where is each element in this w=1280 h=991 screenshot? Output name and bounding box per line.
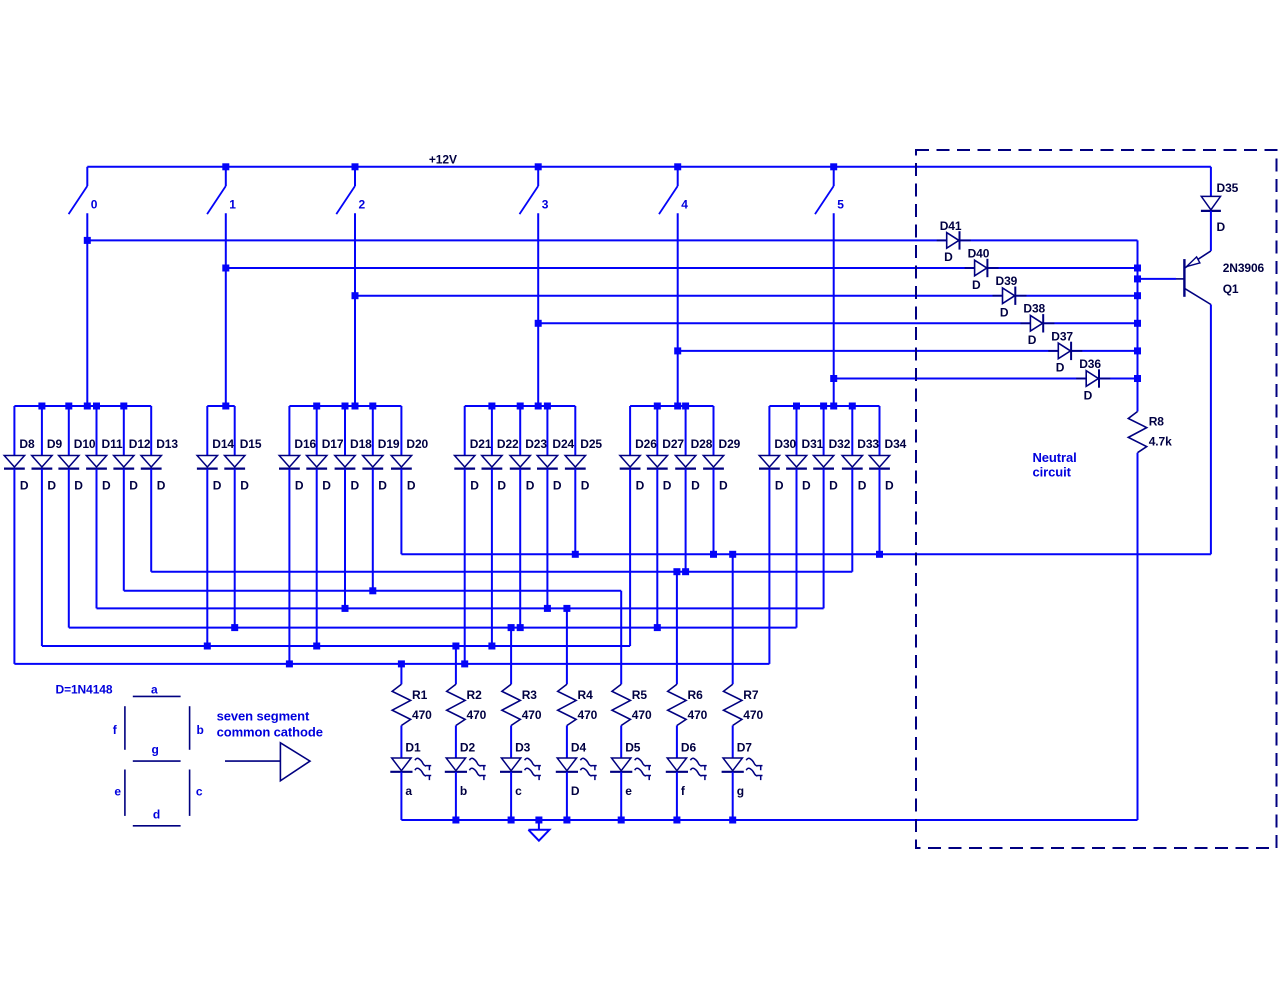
svg-text:D: D (691, 479, 700, 493)
svg-text:D=1N4148: D=1N4148 (56, 683, 113, 697)
svg-text:+12V: +12V (429, 153, 457, 167)
svg-text:D: D (351, 479, 360, 493)
svg-text:D: D (129, 479, 138, 493)
svg-text:470: 470 (522, 708, 542, 722)
svg-text:D27: D27 (662, 437, 684, 451)
svg-text:g: g (737, 784, 744, 798)
svg-text:Neutral: Neutral (1033, 450, 1077, 465)
svg-text:D35: D35 (1217, 181, 1239, 195)
svg-text:D12: D12 (129, 437, 151, 451)
svg-text:D1: D1 (405, 741, 421, 755)
svg-text:c: c (515, 784, 522, 798)
svg-text:D30: D30 (774, 437, 796, 451)
svg-text:D: D (553, 479, 562, 493)
svg-text:4.7k: 4.7k (1149, 435, 1172, 449)
svg-text:D32: D32 (829, 437, 851, 451)
svg-text:D: D (571, 784, 580, 798)
svg-text:470: 470 (688, 708, 708, 722)
svg-text:D: D (295, 479, 304, 493)
svg-text:D2: D2 (460, 741, 476, 755)
svg-text:a: a (405, 784, 412, 798)
svg-text:D33: D33 (857, 437, 879, 451)
svg-text:D: D (378, 479, 387, 493)
svg-text:3: 3 (542, 198, 549, 212)
svg-text:D: D (829, 479, 838, 493)
svg-text:R3: R3 (522, 688, 538, 702)
svg-text:R5: R5 (632, 688, 648, 702)
svg-text:D: D (157, 479, 166, 493)
svg-text:R6: R6 (688, 688, 704, 702)
svg-text:D: D (74, 479, 83, 493)
svg-text:R1: R1 (412, 688, 428, 702)
svg-text:D: D (240, 479, 249, 493)
svg-text:D19: D19 (378, 437, 400, 451)
svg-text:D15: D15 (240, 437, 262, 451)
svg-text:D10: D10 (74, 437, 96, 451)
svg-text:D: D (322, 479, 331, 493)
svg-text:b: b (460, 784, 467, 798)
svg-text:D: D (1217, 220, 1226, 234)
svg-text:1: 1 (229, 198, 236, 212)
svg-text:470: 470 (467, 708, 487, 722)
svg-text:D28: D28 (691, 437, 713, 451)
svg-text:D38: D38 (1023, 302, 1045, 316)
svg-text:470: 470 (578, 708, 598, 722)
svg-text:b: b (197, 723, 204, 737)
svg-text:D: D (47, 479, 56, 493)
svg-text:470: 470 (632, 708, 652, 722)
svg-text:2N3906: 2N3906 (1223, 261, 1265, 275)
svg-text:D: D (719, 479, 728, 493)
svg-text:D: D (497, 479, 506, 493)
svg-text:D21: D21 (470, 437, 492, 451)
svg-text:470: 470 (412, 708, 432, 722)
svg-text:e: e (114, 785, 121, 799)
svg-text:c: c (196, 785, 203, 799)
svg-text:D17: D17 (322, 437, 344, 451)
svg-text:D: D (1056, 361, 1065, 375)
svg-text:D: D (636, 479, 645, 493)
svg-text:D41: D41 (940, 219, 962, 233)
svg-text:5: 5 (837, 198, 844, 212)
svg-text:D: D (944, 250, 953, 264)
svg-text:g: g (152, 743, 159, 757)
svg-text:D: D (102, 479, 111, 493)
svg-text:D: D (972, 278, 981, 292)
svg-text:4: 4 (681, 198, 688, 212)
svg-text:D31: D31 (802, 437, 824, 451)
svg-text:D: D (470, 479, 479, 493)
svg-text:D8: D8 (19, 437, 35, 451)
svg-text:D6: D6 (681, 741, 697, 755)
svg-text:D16: D16 (294, 437, 316, 451)
svg-text:2: 2 (359, 198, 366, 212)
svg-text:D14: D14 (212, 437, 234, 451)
svg-text:D18: D18 (350, 437, 372, 451)
svg-text:D: D (663, 479, 672, 493)
svg-text:common cathode: common cathode (217, 725, 323, 740)
svg-text:e: e (625, 784, 632, 798)
svg-text:D26: D26 (635, 437, 657, 451)
svg-text:D: D (775, 479, 784, 493)
svg-text:D: D (581, 479, 590, 493)
svg-text:D: D (526, 479, 535, 493)
svg-text:D: D (1028, 333, 1037, 347)
svg-text:D: D (407, 479, 416, 493)
svg-text:D4: D4 (571, 741, 587, 755)
svg-text:circuit: circuit (1033, 465, 1072, 480)
svg-text:D: D (20, 479, 29, 493)
svg-text:D29: D29 (719, 437, 741, 451)
svg-text:seven segment: seven segment (217, 708, 310, 723)
svg-text:R4: R4 (578, 688, 594, 702)
svg-text:0: 0 (91, 198, 98, 212)
svg-text:D22: D22 (497, 437, 519, 451)
svg-text:D11: D11 (102, 437, 123, 451)
svg-text:D: D (885, 479, 894, 493)
svg-text:D37: D37 (1051, 329, 1073, 343)
svg-text:D25: D25 (580, 437, 602, 451)
svg-text:R2: R2 (467, 688, 483, 702)
svg-text:d: d (153, 807, 160, 821)
svg-text:D9: D9 (47, 437, 63, 451)
svg-text:D: D (213, 479, 222, 493)
svg-text:D3: D3 (515, 741, 531, 755)
svg-text:D20: D20 (406, 437, 428, 451)
svg-text:D24: D24 (552, 437, 574, 451)
svg-text:D40: D40 (968, 246, 990, 260)
svg-text:D: D (1084, 388, 1093, 402)
svg-text:R7: R7 (743, 688, 759, 702)
svg-text:D34: D34 (885, 437, 907, 451)
svg-text:D: D (802, 479, 811, 493)
svg-text:D39: D39 (996, 274, 1018, 288)
svg-text:470: 470 (743, 708, 763, 722)
svg-text:D36: D36 (1079, 357, 1101, 371)
svg-text:a: a (151, 683, 158, 697)
svg-text:Q1: Q1 (1223, 282, 1239, 296)
svg-text:D: D (1000, 306, 1009, 320)
svg-text:D: D (858, 479, 867, 493)
svg-text:D7: D7 (737, 741, 753, 755)
svg-text:R8: R8 (1149, 415, 1165, 429)
svg-text:D13: D13 (156, 437, 178, 451)
svg-text:D23: D23 (525, 437, 547, 451)
svg-text:D5: D5 (625, 741, 641, 755)
